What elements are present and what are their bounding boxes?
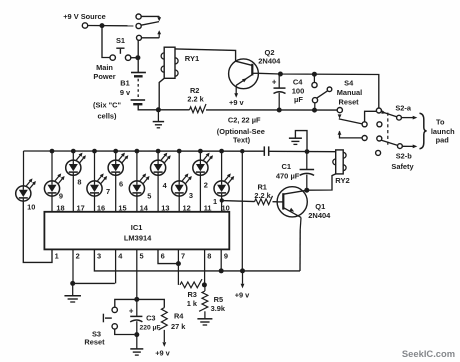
svg-text:2: 2: [76, 252, 80, 261]
wire rail to LED 1: [221, 151, 223, 181]
ground battery: [153, 110, 164, 128]
arrow Q2 emitter to +9v: [234, 92, 238, 98]
label Q1: [315, 202, 325, 211]
relay RY1 contact mid: [136, 23, 141, 28]
label RY1: [185, 54, 200, 63]
svg-text:2.2 k: 2.2 k: [187, 94, 204, 103]
label R2: [190, 86, 199, 95]
wire rail to LED 2: [199, 151, 201, 160]
wire LED 8 to IC pin: [72, 175, 74, 212]
relay RY2 coil: [333, 150, 346, 174]
label S2-a: [395, 103, 412, 112]
svg-text:1: 1: [213, 197, 217, 206]
label LED 6: [119, 179, 123, 188]
svg-text:5: 5: [139, 252, 143, 261]
label Safety: [391, 162, 414, 171]
svg-text:27 k: 27 k: [171, 322, 186, 331]
terminal S2-a output: [397, 115, 402, 120]
label Manual: [337, 88, 362, 97]
labels IC1 top pins 18-10: [56, 204, 229, 213]
node +9 V Source label: [63, 12, 106, 21]
wire Q2 collector rail: [258, 73, 378, 108]
junction C3 bottom: [134, 332, 139, 337]
svg-text:RY1: RY1: [185, 54, 200, 63]
resistor R3: [180, 279, 202, 288]
wire +9V source to relay contact: [88, 25, 134, 27]
wire C3 node to R4: [137, 299, 165, 307]
label LED 9: [59, 192, 63, 201]
terminal E: [362, 136, 367, 141]
label To launch pad: [431, 118, 455, 145]
wire pin4 down: [115, 249, 117, 283]
label Reset S3: [84, 338, 105, 347]
wire contact to battery: [137, 40, 139, 72]
svg-text:µF: µF: [294, 95, 303, 104]
wire LED 6 to IC pin: [115, 175, 117, 212]
label +9 v R4: [155, 348, 170, 357]
svg-text:6: 6: [119, 179, 123, 188]
LED DS7: [87, 173, 107, 196]
label text: [233, 136, 251, 145]
label 2.2 k: [187, 94, 204, 103]
switch S4: [312, 74, 332, 110]
svg-text:R3: R3: [187, 290, 196, 299]
wire rail to R1 to +9v net: [241, 151, 243, 271]
svg-text:2.2 k: 2.2 k: [254, 191, 271, 200]
label 3.9k: [211, 304, 226, 313]
LED DS6: [108, 153, 128, 176]
svg-text:Q1: Q1: [315, 202, 325, 211]
LED DS10: [16, 178, 36, 201]
svg-text:3: 3: [97, 252, 101, 261]
junction S4 bottom: [312, 108, 317, 113]
junction pin5 C3: [134, 297, 139, 302]
svg-text:Text): Text): [233, 136, 251, 145]
wire pin2 down: [72, 249, 74, 283]
LED DS9: [44, 173, 64, 196]
svg-text:C4: C4: [293, 78, 303, 87]
svg-text:R4: R4: [174, 312, 184, 321]
wire LED10 to pin1: [23, 201, 52, 262]
arrow R4 to +9v: [162, 330, 166, 347]
LED DS3: [172, 173, 192, 196]
wire rail to LED 8: [72, 151, 74, 160]
svg-text:10: 10: [27, 203, 35, 212]
wire rail to LED 4: [157, 151, 159, 160]
terminal S2-b output: [398, 144, 403, 149]
label R5: [214, 295, 223, 304]
junction R3 R5: [202, 282, 207, 287]
arrow S2-b throw: [338, 131, 363, 138]
label 1 k: [187, 299, 198, 308]
svg-text:9 v: 9 v: [120, 88, 131, 97]
terminal +9V source: [82, 23, 87, 28]
wire rail to LED 9: [51, 151, 53, 181]
resistor R4: [159, 308, 168, 330]
wire rail to LED 3: [178, 151, 180, 181]
wire LED anode rail: [24, 150, 336, 153]
junction pin2: [70, 281, 75, 286]
wire LED 7 to IC pin: [94, 196, 96, 212]
svg-text:470 µF: 470 µF: [276, 171, 300, 180]
wire R2 to S2 terminal: [206, 109, 337, 111]
wire A to B: [365, 111, 377, 122]
arrow +9v stub: [241, 271, 245, 289]
wire pin2 to pin4: [73, 282, 115, 284]
IC U1 LM3914: [44, 212, 229, 250]
wire rail to LED 6: [115, 151, 117, 160]
transistor Q1: [277, 187, 307, 230]
svg-text:Main: Main: [96, 63, 113, 72]
relay RY1 coil: [161, 47, 178, 78]
label optional: [217, 127, 265, 136]
svg-text:1 k: 1 k: [187, 299, 198, 308]
label 2.2 k R1: [254, 191, 271, 200]
wire S2-a output arrow: [401, 116, 417, 120]
wire pin3 to +9v rail: [94, 249, 300, 271]
label RY2: [335, 176, 350, 185]
label C4: [293, 78, 303, 87]
relay RY1 blade upper: [141, 22, 159, 26]
label +9 v stub: [235, 290, 250, 299]
svg-text:Manual: Manual: [337, 88, 362, 97]
svg-text:S1: S1: [116, 36, 125, 45]
label LED 5: [147, 192, 151, 201]
LED DS8: [66, 153, 86, 176]
wire rail to LED 7: [94, 151, 96, 181]
svg-text:LM3914: LM3914: [124, 234, 152, 243]
label C1: [282, 162, 292, 171]
svg-text:5: 5: [147, 192, 151, 201]
wire S3 bottom to C3 bottom: [115, 329, 135, 334]
resistor R5: [199, 285, 208, 311]
wire RY1 bottom to ground rail: [159, 78, 164, 108]
label 220 uF: [140, 325, 161, 332]
battery B1: [131, 73, 146, 105]
junction S4 top: [312, 72, 317, 77]
label Q2: [264, 48, 274, 57]
svg-text:+9 V Source: +9 V Source: [63, 12, 106, 21]
watermark SeekIC.com: [402, 348, 455, 359]
wire LED 3 to IC pin: [178, 196, 180, 212]
wire S2-b output arrow: [402, 145, 417, 149]
label S2-b: [396, 151, 413, 160]
wire pin8 down: [204, 249, 206, 285]
ground pin2: [64, 283, 81, 302]
svg-text:C2, 22 µF: C2, 22 µF: [228, 115, 261, 124]
label Reset: [339, 98, 360, 107]
label S3: [92, 329, 101, 338]
svg-text:cells): cells): [98, 112, 117, 121]
svg-text:220 µF: 220 µF: [140, 325, 161, 332]
wire C3 node to S3: [115, 299, 137, 307]
label LED 10: [27, 203, 35, 212]
capacitor C2: [264, 146, 268, 156]
svg-text:8: 8: [207, 252, 211, 261]
wire rail left leg: [23, 151, 25, 186]
svg-text:1: 1: [55, 252, 59, 261]
switch S1: [110, 48, 131, 60]
label LED 1: [213, 197, 217, 206]
wire pin9 down: [220, 249, 222, 271]
wire battery minus: [138, 104, 189, 110]
junction below LED 1: [220, 198, 224, 202]
terminal F: [377, 136, 382, 141]
relay RY1 contact arm upper: [141, 16, 161, 21]
junction C4 bottom: [277, 108, 282, 113]
terminal A: [362, 122, 367, 127]
svg-text:B1: B1: [120, 79, 129, 88]
svg-text:SeekIC.com: SeekIC.com: [402, 348, 455, 359]
wire LED 4 to IC pin: [157, 175, 159, 212]
junction pin9 rail: [219, 268, 224, 273]
switch S3: [103, 307, 117, 329]
label LED 8: [77, 178, 81, 187]
LED DS1: [214, 173, 234, 196]
label uF C4: [294, 95, 303, 104]
svg-text:Safety: Safety: [391, 162, 414, 171]
svg-text:+: +: [129, 306, 134, 315]
svg-text:6: 6: [161, 252, 165, 261]
label 27 k: [171, 322, 186, 331]
label 9 v: [120, 88, 131, 97]
svg-text:Reset: Reset: [339, 98, 360, 107]
label 2N404 Q1: [308, 211, 331, 220]
switch S2-a blade to output: [381, 110, 396, 117]
svg-text:2: 2: [204, 180, 208, 189]
capacitor C4: [272, 74, 286, 110]
svg-text:pad: pad: [436, 135, 450, 144]
junction S1-battery: [135, 55, 140, 60]
svg-text:+: +: [272, 78, 277, 87]
svg-text:C1: C1: [282, 162, 292, 171]
label R3: [187, 290, 196, 299]
relay RY1 contact lower: [137, 35, 142, 40]
svg-text:3: 3: [189, 191, 193, 200]
junction C4 top: [278, 72, 283, 77]
wire +9V node down to S1: [102, 26, 110, 58]
junction Q1 collector: [304, 188, 309, 193]
svg-text:3.9k: 3.9k: [211, 304, 226, 313]
switch S2-a pole terminal: [337, 108, 342, 113]
label 470 uF: [276, 171, 300, 180]
svg-text:+9 v: +9 v: [155, 348, 170, 357]
relay RY1 contact arm lower: [142, 30, 162, 38]
label S4: [344, 78, 354, 87]
junction battery-ground: [156, 107, 161, 112]
label LED 2: [204, 180, 208, 189]
arrow S2-a throw: [338, 114, 342, 118]
svg-text:Power: Power: [93, 72, 115, 81]
svg-text:+9 v: +9 v: [235, 290, 250, 299]
wire LED 1 to IC pin: [221, 196, 223, 212]
brace to launch pad: [420, 113, 427, 149]
switch S2-a blade to A: [339, 119, 362, 124]
label IC1: [131, 223, 143, 232]
svg-text:2N404: 2N404: [258, 57, 281, 66]
svg-text:7: 7: [181, 252, 185, 261]
capacitor C3: [129, 299, 142, 334]
label LED 7: [106, 187, 110, 196]
switch S2-b blade: [381, 140, 397, 145]
svg-text:S2-b: S2-b: [396, 151, 413, 160]
ground R5: [197, 311, 212, 325]
junction +9V node: [100, 23, 105, 28]
wire LED 5 to IC pin: [136, 196, 138, 212]
transistor Q2: [229, 59, 259, 92]
wire RY2 bottom to Q1 collector: [307, 174, 336, 190]
resistor R2: [190, 104, 207, 113]
ground C3: [130, 335, 143, 356]
wire LED 9 to IC pin: [51, 196, 53, 212]
label Main Power: [93, 63, 115, 81]
label R1: [257, 182, 266, 191]
wire RY1 top to Q2 base: [175, 49, 236, 61]
svg-text:4: 4: [118, 252, 123, 261]
switch S1 label: [116, 36, 125, 45]
terminal C unused: [377, 122, 382, 127]
labels IC1 bottom pins 1-9: [55, 252, 228, 261]
label C2: [228, 115, 261, 124]
LED DS5: [129, 173, 149, 196]
label LM3914: [124, 234, 152, 243]
label C3: [146, 314, 155, 323]
svg-text:S2-a: S2-a: [395, 103, 412, 112]
dashed gang link S2: [387, 113, 389, 146]
label Six C cells: [93, 101, 121, 121]
wire LED 2 to IC pin: [199, 175, 201, 212]
svg-text:2N404: 2N404: [308, 211, 331, 220]
junction +9v stub: [240, 268, 245, 273]
label LED 4: [163, 181, 168, 190]
svg-text:9: 9: [59, 192, 63, 201]
wire Q1 emitter down: [299, 230, 301, 271]
svg-text:+9 v: +9 v: [229, 98, 244, 107]
wire pin7 down: [177, 249, 179, 285]
svg-text:C3: C3: [146, 314, 155, 323]
label R4: [174, 312, 184, 321]
relay RY1 contact common: [136, 14, 141, 19]
wire pin6 to pin7: [158, 249, 176, 263]
LED DS4: [151, 153, 171, 176]
junction pin7: [176, 261, 181, 266]
svg-text:IC1: IC1: [131, 223, 143, 232]
label B1: [120, 79, 129, 88]
label 2N404 Q2: [258, 57, 281, 66]
terminal H unused: [376, 150, 381, 155]
terminal B: [376, 108, 381, 113]
svg-text:7: 7: [106, 187, 110, 196]
svg-text:Reset: Reset: [84, 338, 105, 347]
wire pin5 down: [136, 249, 138, 299]
capacitor C1: [300, 151, 315, 190]
label 100: [292, 87, 305, 96]
label +9 v under Q2: [229, 98, 244, 107]
svg-text:S4: S4: [344, 78, 354, 87]
resistor R1: [222, 196, 277, 205]
LED DS2: [193, 153, 213, 176]
svg-text:RY2: RY2: [335, 176, 350, 185]
svg-text:4: 4: [163, 181, 168, 190]
svg-text:(Six "C": (Six "C": [93, 101, 121, 110]
svg-text:To: To: [436, 118, 445, 127]
svg-text:8: 8: [77, 178, 81, 187]
wire S1 to battery column: [131, 57, 136, 59]
label LED 3: [189, 191, 193, 200]
svg-text:9: 9: [224, 252, 228, 261]
ground rail: [289, 131, 307, 152]
wire rail to LED 5: [136, 151, 138, 181]
junctions LED rail: [50, 149, 310, 154]
